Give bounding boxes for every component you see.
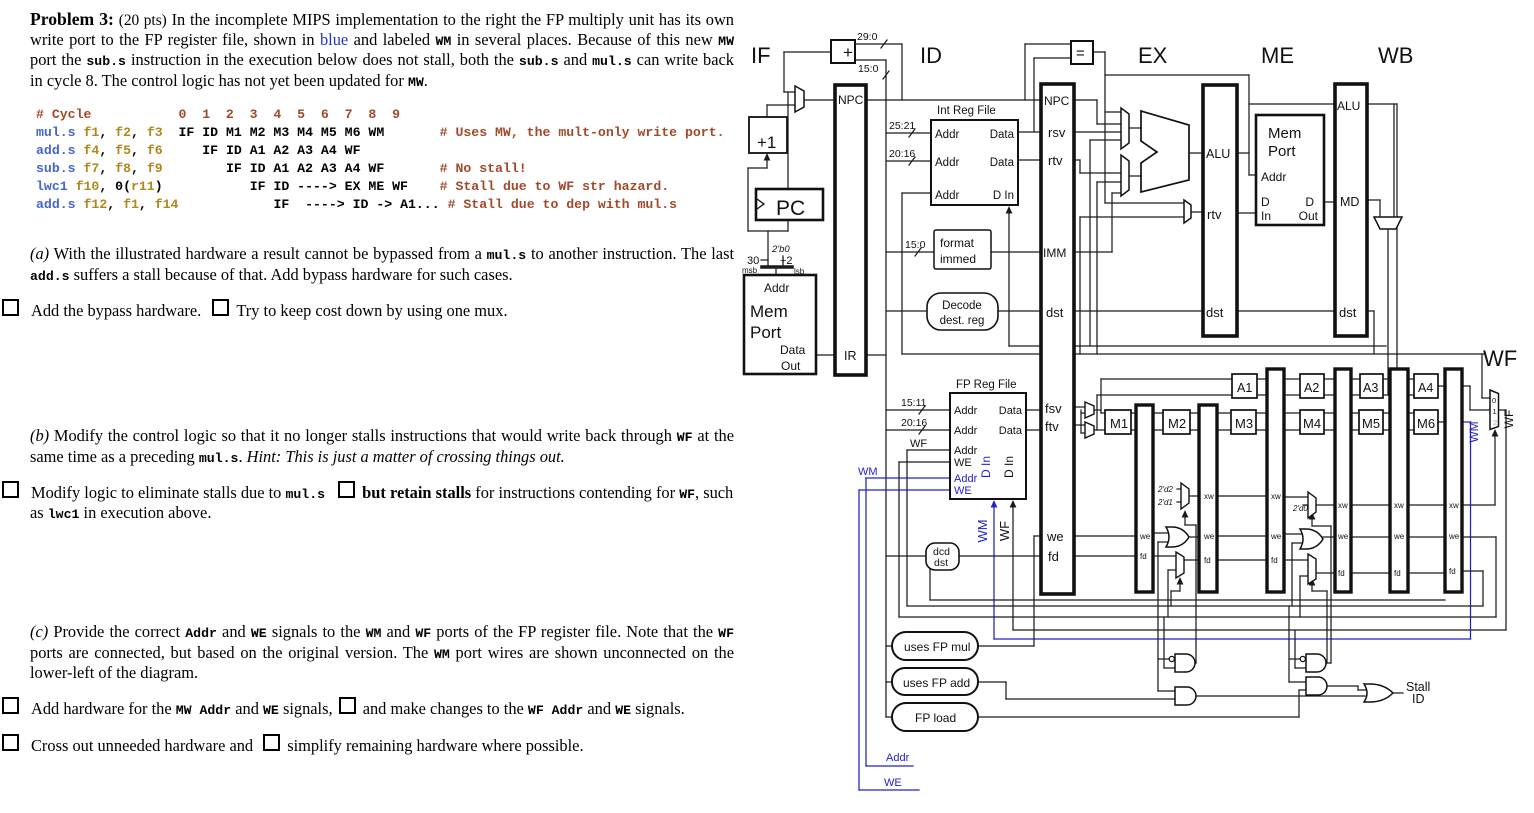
svg-text:Data: Data — [999, 425, 1023, 437]
wire: nand gate 1 inputs — [1158, 658, 1169, 660]
svg-text:WE: WE — [884, 777, 902, 789]
svg-text:15:0: 15:0 — [905, 239, 926, 251]
FP add stage A4 — [1414, 374, 1438, 398]
dcd dst decoder — [926, 543, 959, 570]
svg-text:dst: dst — [1206, 305, 1224, 320]
wire: uses FP mul to we latch — [975, 645, 1034, 647]
svg-text:fd: fd — [1204, 556, 1211, 565]
wire: L6 fd out to WF Addr — [1462, 570, 1483, 572]
wire: we/fd loop line under FP latches — [930, 599, 1445, 601]
gate: OR we combine A — [1166, 527, 1189, 547]
wire: fd mux B select — [1311, 585, 1313, 591]
svg-text:M6: M6 — [1417, 416, 1435, 431]
svg-text:uses FP add: uses FP add — [903, 676, 970, 690]
wire: rtv into mux2 — [1074, 159, 1080, 161]
wire: rsv into mux1 — [1074, 131, 1121, 133]
svg-text:WM: WM — [975, 519, 990, 542]
svg-text:xw: xw — [1271, 492, 1281, 501]
wire: FP reg file read address 15:11 — [886, 409, 950, 411]
wire: next-PC down into PC register — [787, 92, 789, 189]
wire: rt field 20:16 to Int Reg File — [886, 160, 931, 162]
svg-text:we: we — [1046, 529, 1064, 544]
wire: store-data mux output — [1191, 211, 1203, 213]
wire: imm field 15:0 to format immed — [886, 251, 934, 253]
mux fsv bypass — [1085, 402, 1094, 418]
wire: IMM into mux2 — [1074, 251, 1112, 253]
wire: msb/lsb ticks — [761, 259, 768, 261]
svg-text:we: we — [1270, 532, 1282, 541]
FP multiply stage M5 — [1359, 410, 1383, 434]
wire: or gate A second input — [1158, 541, 1170, 543]
FP latch M6/WF A4/WF — [1445, 369, 1462, 592]
svg-text:Data: Data — [780, 343, 806, 357]
wire: dst EX/ME to ME/WB — [1237, 310, 1335, 312]
wire: ftv to operand mux — [1074, 424, 1085, 426]
svg-text:Port: Port — [1268, 143, 1296, 160]
wire: writeback dst return to Int Reg File write Addr — [901, 193, 903, 354]
clock input triangle on PC — [757, 199, 764, 209]
mux xw stage M2 — [1181, 483, 1189, 509]
svg-text:we: we — [1448, 532, 1460, 541]
svg-text:WF: WF — [1483, 346, 1517, 371]
svg-text:ID: ID — [1412, 692, 1425, 706]
wire: PC to +1 incrementer — [766, 160, 768, 168]
wire: MD to writeback mux — [1367, 199, 1380, 201]
svg-text:D In: D In — [993, 190, 1014, 202]
pipeline latch IF/ID (NPC, IR) — [835, 85, 866, 375]
svg-text:Decode: Decode — [942, 300, 982, 312]
FP add stage A2 — [1300, 374, 1324, 398]
decode pill: uses FP mul — [892, 632, 978, 660]
svg-text:Addr: Addr — [1261, 170, 1286, 184]
svg-text:dst: dst — [934, 557, 948, 569]
wire: +1 output to PC mux — [767, 104, 795, 106]
wire: xw/we/fd L4 to L5 — [1351, 504, 1390, 506]
wire: or gate A output to L2 we — [1189, 536, 1199, 538]
wire: IF Mem Port Data Out to IR — [816, 354, 886, 356]
svg-text:Addr: Addr — [954, 425, 978, 437]
ALU (EX stage) — [1141, 111, 1189, 192]
svg-text:ftv: ftv — [1045, 419, 1059, 434]
wire: M6 result out — [1438, 421, 1463, 423]
pipeline latch ID/EX (NPC,rsv,rtv,IMM,dst,fsv,ftv,we,fd) — [1041, 84, 1074, 594]
svg-text:M3: M3 — [1235, 416, 1253, 431]
svg-text:we: we — [1139, 532, 1151, 541]
svg-text:we: we — [1203, 532, 1215, 541]
wire: fd mux A select — [1179, 584, 1181, 591]
FP multiply stage M6 — [1414, 410, 1438, 434]
svg-text:D: D — [1305, 195, 1314, 209]
wire: decode pill taps off IR bus — [886, 645, 892, 647]
svg-text:WM: WM — [1467, 421, 1481, 442]
wire: WM data from M6 (blue) — [1462, 421, 1471, 423]
FP multiply stage M3 — [1231, 410, 1256, 434]
wire: dcd dst output to fd latch — [959, 555, 1041, 557]
node: address concatenation bar — [762, 265, 792, 269]
gate: NAND (inverted input) stall logic 2 — [1306, 654, 1326, 672]
svg-text:M1: M1 — [1110, 416, 1128, 431]
Decode dest. reg unit — [927, 293, 998, 330]
svg-text:20:16: 20:16 — [901, 417, 927, 429]
wire: WF mux output to FP reg file D In — [1498, 409, 1506, 411]
svg-text:we: we — [1393, 532, 1405, 541]
svg-text:Port: Port — [750, 323, 781, 342]
svg-text:15:11: 15:11 — [901, 397, 927, 409]
wire: A4 result to WF mux — [1438, 385, 1470, 387]
svg-text:Addr: Addr — [935, 157, 959, 169]
wire: fd mux A output — [1184, 559, 1199, 561]
svg-text:immed: immed — [940, 252, 976, 266]
svg-text:ALU: ALU — [1206, 147, 1230, 161]
Int Reg File — [931, 120, 1018, 205]
wire: store data to Mem Port D In — [1237, 212, 1256, 214]
svg-text:D: D — [1261, 195, 1270, 209]
svg-text:2'd0: 2'd0 — [1292, 504, 1308, 513]
svg-text:fd: fd — [1048, 549, 1059, 564]
svg-text:NPC: NPC — [838, 93, 864, 107]
svg-text:Mem: Mem — [1268, 125, 1301, 142]
wire: and gate 2 inputs — [1289, 681, 1306, 683]
wire: fd L2 to L3 — [1217, 559, 1267, 561]
svg-text:dst: dst — [1339, 305, 1357, 320]
wire: we chain into or gate B — [1284, 533, 1303, 535]
wire: nand gate 2 output — [1326, 662, 1331, 664]
wire: ALU value to ME Mem Port Addr and ME/WB — [1237, 152, 1249, 154]
wire: xw chain into xw mux B — [1284, 496, 1308, 498]
svg-text:2'd1: 2'd1 — [1157, 498, 1173, 507]
svg-text:29:0: 29:0 — [857, 31, 878, 43]
svg-text:Addr: Addr — [935, 190, 959, 202]
FP latch M5/M6 A3/A4 — [1390, 369, 1408, 592]
wire: adder output 15:0 tap — [855, 59, 886, 61]
svg-text:1: 1 — [1493, 407, 1497, 416]
svg-text:fd: fd — [1394, 569, 1401, 578]
pipeline latch EX/ME (ALU,rtv,dst) — [1203, 85, 1237, 336]
svg-text:Data: Data — [990, 129, 1015, 141]
incrementer +1 — [749, 117, 787, 153]
pipeline latch ME/WB (ALU,MD,dst) — [1335, 84, 1367, 336]
svg-text:0: 0 — [1492, 396, 1496, 405]
wire: L6 we out to WF WE — [1462, 536, 1496, 538]
wire: WM write Addr (blue, unconnected) — [866, 477, 950, 479]
svg-text:msb: msb — [742, 266, 758, 275]
svg-text:M2: M2 — [1168, 416, 1186, 431]
mux xw stage M4 — [1308, 492, 1316, 518]
svg-text:rtv: rtv — [1048, 153, 1063, 168]
svg-text:format: format — [940, 236, 975, 250]
svg-text:NPC: NPC — [1044, 94, 1070, 108]
wire: xw mux B select — [1330, 526, 1332, 663]
wire: PC output to memory address bus — [787, 220, 789, 231]
FP add stage A3 — [1360, 374, 1383, 398]
svg-text:D In: D In — [979, 456, 993, 478]
FP Reg File — [950, 393, 1026, 499]
svg-text:FP load: FP load — [915, 711, 956, 725]
svg-text:Out: Out — [781, 359, 801, 373]
wire: writeback mux output — [1387, 229, 1389, 395]
wire: fd into M pipeline — [1074, 555, 1136, 557]
wire: IR to decode dest reg — [886, 310, 926, 312]
FP multiply stage M2 — [1163, 410, 1190, 434]
wire: stall OR output — [1393, 692, 1403, 694]
svg-text:FP Reg File: FP Reg File — [956, 379, 1017, 391]
wire: WF WE return line — [899, 616, 1496, 618]
wire: writeback data bus to Int Reg File D In — [1009, 345, 1386, 347]
format immed unit — [934, 230, 991, 269]
svg-text:Addr: Addr — [886, 752, 910, 764]
svg-text:rsv: rsv — [1048, 125, 1066, 140]
svg-text:25:21: 25:21 — [889, 120, 915, 132]
svg-text:M5: M5 — [1362, 416, 1380, 431]
gate: OR we combine B — [1300, 529, 1323, 549]
svg-text:+: + — [843, 43, 853, 62]
svg-text:xw: xw — [1338, 501, 1348, 510]
wire: xw mux A constant inputs — [1177, 488, 1181, 490]
svg-text:dest. reg: dest. reg — [940, 315, 985, 327]
wire: fd chain into fd mux B — [1284, 559, 1308, 561]
wire: FP add pipeline operand B row — [1097, 394, 1438, 396]
svg-text:fd: fd — [1338, 569, 1345, 578]
svg-text:PC: PC — [776, 197, 805, 220]
mux ALU operand 2 — [1121, 155, 1129, 196]
svg-text:fd: fd — [1140, 552, 1147, 561]
FP multiply stage M1 — [1105, 410, 1131, 434]
wire: and gate 1 input — [1158, 690, 1175, 692]
mux ftv bypass — [1085, 422, 1094, 438]
svg-text:MD: MD — [1340, 195, 1359, 209]
svg-text:uses FP mul: uses FP mul — [904, 640, 970, 654]
svg-text:In: In — [1261, 209, 1271, 223]
wire: xw mux A select — [1195, 525, 1197, 663]
decode pill: uses FP add — [892, 668, 978, 695]
gate: OR stall ID output — [1364, 684, 1393, 702]
svg-text:Data: Data — [990, 157, 1015, 169]
svg-text:2'd2: 2'd2 — [1157, 485, 1173, 494]
wire: WF write Addr — [907, 449, 950, 451]
ME Mem Port (data memory) — [1256, 115, 1324, 225]
mux store data (rtv) — [1184, 200, 1191, 223]
wire: mux1 output to ALU — [1129, 127, 1141, 129]
wire: or gate B output — [1323, 536, 1335, 538]
svg-text:=: = — [1076, 45, 1085, 62]
svg-text:Mem: Mem — [750, 302, 788, 321]
svg-text:ID: ID — [920, 43, 942, 68]
wire: bypass into mux1 — [1090, 139, 1121, 141]
svg-text:Addr: Addr — [954, 445, 978, 457]
svg-text:fsv: fsv — [1045, 401, 1062, 416]
wire: xw L2 to L3 — [1217, 495, 1267, 497]
wire: adder output 29:0 — [855, 43, 902, 45]
wire: xw/we/fd L5 to L6 — [1408, 504, 1445, 506]
wire: Mem Port D Out to MD latch — [1324, 201, 1335, 203]
wire: and gate 2 output — [1326, 685, 1358, 687]
wire: dcd dst input — [886, 555, 926, 557]
svg-text:Out: Out — [1299, 209, 1319, 223]
wire: rtv store-data mux inputs — [1105, 202, 1184, 204]
wire: Int Reg File rt data to rtv latch — [1018, 159, 1041, 161]
wire: FP add pipeline operand A row — [1101, 378, 1438, 380]
wire: nand gate 1 output — [1195, 662, 1196, 664]
FP multiply stage M4 — [1300, 410, 1324, 434]
svg-text:D In: D In — [1002, 456, 1016, 478]
svg-text:WF: WF — [1502, 410, 1516, 429]
svg-text:fd: fd — [1449, 567, 1456, 576]
svg-text:A2: A2 — [1304, 381, 1319, 395]
svg-text:ME: ME — [1261, 43, 1294, 68]
svg-text:2'b0: 2'b0 — [771, 244, 790, 255]
IF Mem Port (instruction memory) — [744, 275, 816, 374]
wire: FP Data outputs to fsv/ftv latch — [1026, 409, 1041, 411]
wire: xw select into WF mux — [1462, 504, 1495, 506]
svg-text:Data: Data — [999, 405, 1023, 417]
wire: format immed output to IMM latch — [991, 251, 1041, 253]
svg-text:IF: IF — [751, 43, 771, 68]
wire: fd mux B output — [1316, 572, 1335, 574]
svg-text:EX: EX — [1138, 43, 1168, 68]
svg-text:Addr: Addr — [764, 281, 789, 295]
svg-text:A1: A1 — [1237, 381, 1252, 395]
svg-text:Addr: Addr — [954, 405, 978, 417]
svg-text:Addr: Addr — [954, 473, 978, 485]
svg-text:M4: M4 — [1303, 416, 1321, 431]
adder PC+1 (+) — [831, 40, 855, 63]
svg-text:IR: IR — [844, 349, 857, 363]
wire: ftv mux output to M1 and A1 — [1093, 429, 1097, 431]
svg-text:dst: dst — [1046, 305, 1064, 320]
wire: NPC into ALU mux1 — [1074, 99, 1097, 101]
svg-text:we: we — [1337, 532, 1349, 541]
svg-text:WB: WB — [1378, 43, 1413, 68]
wire: EX upper feed line — [1105, 74, 1249, 76]
gate: AND stall logic 1 — [1175, 687, 1196, 705]
gate: NAND (inverted input) stall logic 1 — [1175, 654, 1195, 672]
svg-text:lsb: lsb — [794, 267, 805, 276]
mux next-PC — [795, 86, 804, 112]
FP latch M3/M4 A1/A2 — [1267, 369, 1284, 592]
wire: uses FP add to and gate — [975, 681, 1006, 683]
wire: WB dst out — [1367, 310, 1374, 312]
svg-text:15:0: 15:0 — [858, 63, 879, 75]
svg-text:rtv: rtv — [1207, 207, 1222, 222]
comparator = — [1071, 41, 1093, 64]
wire: bypass feed to FP operand muxes — [1080, 410, 1082, 433]
wire: Int Reg File rs data to rsv latch — [1018, 131, 1041, 133]
svg-text:+1: +1 — [757, 133, 776, 152]
svg-text:Addr: Addr — [935, 129, 959, 141]
wire: FP reg file read address 20:16 — [886, 429, 950, 431]
FP add stage A1 — [1232, 374, 1257, 398]
svg-text:xw: xw — [1449, 501, 1459, 510]
wire: nand gate 2 inputs — [1289, 658, 1300, 660]
svg-text:WF: WF — [910, 438, 927, 450]
wire: mux2 output to ALU — [1129, 175, 1141, 177]
wire: M1 we chain — [1153, 532, 1170, 534]
svg-text:WM: WM — [858, 466, 878, 478]
mux fd stage M2 — [1176, 552, 1184, 578]
wire: FP load to and gate 2 — [975, 716, 1299, 718]
wire: ALU result to writeback mux and FP bypass — [1367, 103, 1397, 105]
svg-text:2: 2 — [1493, 418, 1497, 427]
svg-text:xw: xw — [1204, 492, 1214, 501]
wire: PC+1 adder input loop — [784, 51, 831, 53]
wire: xw mux A output — [1189, 495, 1199, 497]
svg-text:WE: WE — [954, 485, 972, 497]
wire: we into M pipeline — [1074, 535, 1136, 537]
wire: IR bus vertical — [885, 60, 887, 717]
wire: fsv to operand mux — [1074, 406, 1085, 408]
wire: xw mux B output — [1316, 504, 1335, 506]
mux fd stage M4 — [1308, 554, 1316, 584]
gate: AND stall logic 2 — [1306, 677, 1327, 695]
svg-text:20:16: 20:16 — [889, 148, 915, 160]
wire: bypass into mux2 — [1097, 181, 1121, 183]
wire: WF write enable WE — [899, 461, 950, 463]
decode pill: FP load — [892, 703, 978, 731]
wire: WF Addr return line — [907, 605, 1483, 607]
FP latch M1/M2 — [1136, 405, 1153, 592]
svg-text:IMM: IMM — [1043, 246, 1066, 260]
svg-text:A4: A4 — [1418, 381, 1433, 395]
svg-text:WF: WF — [997, 521, 1012, 541]
register PC — [756, 189, 823, 220]
mux ALU operand 1 — [1121, 108, 1129, 149]
mux WB writeback select — [1374, 217, 1402, 229]
wire: fsv mux output to M1 and A1 — [1093, 409, 1101, 411]
svg-text:Int Reg File: Int Reg File — [937, 105, 996, 117]
wire: WF-stage value into WF mux input 0 — [1481, 354, 1483, 398]
svg-text:+2: +2 — [780, 255, 793, 267]
wire: ALU output to EX/ME latch — [1189, 152, 1203, 154]
wire: WM write enable WE (blue, unconnected) — [859, 489, 950, 491]
FP latch M2/M3 — [1199, 405, 1217, 592]
wire: branch equality comparator inputs — [1024, 44, 1026, 100]
svg-text:fd: fd — [1271, 556, 1278, 565]
wire: comparator output into EX — [1093, 51, 1105, 53]
wire: dst ID/EX to EX/ME — [1074, 310, 1203, 312]
wire: and gate 1 output to or gate — [1195, 695, 1365, 697]
wire: rs field 25:21 to Int Reg File — [886, 132, 931, 134]
svg-text:ALU: ALU — [1337, 99, 1360, 113]
FP latch M4/M5 A2/A3 — [1335, 369, 1351, 592]
wire: next-PC into NPC latch and to ID — [804, 99, 1041, 101]
wire: compare feed into mux1 — [1105, 111, 1121, 113]
wire: we L2 to L3 — [1217, 535, 1267, 537]
mux WF writeback select — [1490, 390, 1499, 430]
svg-text:WE: WE — [954, 457, 972, 469]
wire: fd chain into fd mux A — [1153, 555, 1176, 557]
svg-text:xw: xw — [1394, 501, 1404, 510]
svg-text:A3: A3 — [1363, 381, 1378, 395]
wire: decode dest reg to dst latch — [998, 310, 1041, 312]
